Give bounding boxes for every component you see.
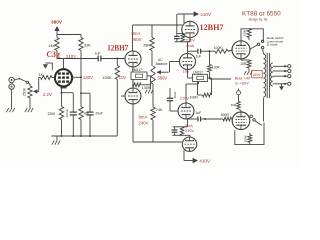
node 410V top <box>178 11 212 17</box>
wire CF1 anode <box>183 14 185 23</box>
capacitor 20uF screen bypass <box>86 93 103 136</box>
potentiometer AC balance <box>151 58 169 84</box>
switch mode b <box>250 115 262 125</box>
svg-text:140V: 140V <box>83 75 93 80</box>
tube V2b 12BH7 lower <box>125 88 141 104</box>
svg-text:C3g: C3g <box>46 50 60 59</box>
wire V3b grid <box>170 62 180 73</box>
wire V4a anode <box>185 118 187 121</box>
cathode network V3a <box>174 34 195 48</box>
ground input jack <box>6 108 14 112</box>
node KT88a grid feed <box>209 50 211 52</box>
resistor 100R set 1 <box>133 76 151 90</box>
label bias <box>235 76 251 86</box>
label 8mA 240V lower <box>139 115 149 126</box>
svg-text:210V: 210V <box>180 96 189 101</box>
tube V3b 12BH7 driver <box>180 54 196 70</box>
rail anode top <box>133 24 183 26</box>
svg-text:42K: 42K <box>84 43 91 47</box>
wire anode line <box>57 58 98 60</box>
svg-text:410V: 410V <box>199 159 211 164</box>
ground LM317 1 <box>145 90 153 94</box>
node grid V2a <box>116 58 118 60</box>
svg-text:30uF: 30uF <box>173 91 177 98</box>
svg-text:1uF: 1uF <box>196 54 202 58</box>
svg-text:100K: 100K <box>102 75 112 80</box>
wire KT88b grid <box>231 119 232 121</box>
wire SRPP junction <box>187 42 189 54</box>
wire screen feed <box>80 51 82 94</box>
svg-text:410V: 410V <box>253 73 262 77</box>
svg-text:KT88 or 6550: KT88 or 6550 <box>242 11 281 18</box>
svg-text:1uF: 1uF <box>195 111 201 115</box>
switch mode <box>250 40 264 54</box>
svg-text:380V: 380V <box>51 20 63 25</box>
regulator LM317 CCS 2 <box>183 69 208 81</box>
jack input upper <box>9 77 14 82</box>
svg-text:10V: 10V <box>119 75 127 80</box>
tube V4a 12BH7 driver lower <box>178 103 194 119</box>
jack input lower <box>9 84 14 89</box>
labels V4a grid <box>180 96 189 101</box>
svg-text:10V: 10V <box>183 70 190 74</box>
wire primary bottom <box>263 98 265 121</box>
resistor 220K cathode <box>48 93 64 136</box>
resistor 10R cathode a <box>240 59 251 71</box>
resistor 14K <box>48 35 59 59</box>
svg-text:380V: 380V <box>157 76 167 81</box>
ground KT88a cathode <box>244 71 252 75</box>
svg-text:240V: 240V <box>139 120 149 125</box>
ground KT88b cathode <box>237 89 241 95</box>
svg-text:LM317: LM317 <box>193 71 203 75</box>
resistor 100R set 2 <box>190 78 212 100</box>
svg-text:210V: 210V <box>185 128 194 133</box>
node 410V bottom <box>193 158 211 164</box>
wire KT88a grid <box>228 50 233 51</box>
transformer primary <box>264 54 266 97</box>
label C3g <box>46 50 60 59</box>
wire V2a anode to rail <box>132 25 134 52</box>
cathode tag C3g <box>60 88 66 93</box>
svg-text:24K: 24K <box>156 108 163 112</box>
capacitor 1uF coupling bottom <box>186 111 205 122</box>
svg-text:1uF: 1uF <box>95 52 101 56</box>
svg-text:120R: 120R <box>212 66 221 70</box>
svg-text:12BH7: 12BH7 <box>200 23 224 32</box>
svg-text:250K: 250K <box>23 87 27 96</box>
tube V2a 12BH7 upper <box>125 51 141 67</box>
wire V2b cathode <box>132 80 134 89</box>
wire jack to ground <box>11 89 13 108</box>
ground potentiometer <box>25 108 33 112</box>
svg-text:8mA: 8mA <box>139 115 148 120</box>
label 140V screen <box>72 75 93 80</box>
capacitor 1uF coupling top <box>188 49 212 59</box>
svg-text:12BH7: 12BH7 <box>107 43 128 52</box>
capacitor 30uF grid bypass <box>167 88 178 111</box>
svg-text:2) triode: 2) triode <box>267 43 278 47</box>
svg-text:to +60V: to +60V <box>235 81 249 86</box>
wire V4b cathode lead <box>189 135 191 137</box>
svg-text:14K: 14K <box>48 44 55 48</box>
label 410V box <box>252 71 263 78</box>
svg-text:28K: 28K <box>143 44 150 48</box>
resistor 24K load lower <box>151 84 163 142</box>
svg-text:20uF: 20uF <box>95 112 103 116</box>
wire V2b grid stub <box>121 95 125 97</box>
svg-text:260V: 260V <box>132 37 142 42</box>
wire V4b anode <box>184 150 193 161</box>
svg-text:500R: 500R <box>221 113 230 117</box>
label mode switch <box>267 36 285 47</box>
node KT88b grid feed <box>204 118 206 120</box>
svg-text:LM317: LM317 <box>132 68 142 72</box>
label 210V <box>66 54 76 59</box>
resistor 10K screen <box>79 93 90 136</box>
svg-text:220K: 220K <box>48 112 57 116</box>
svg-text:100K: 100K <box>244 135 248 142</box>
resistor 100K anode-screen loop <box>241 29 263 42</box>
svg-text:100K: 100K <box>214 46 223 50</box>
resistor 100K grid KT88a <box>211 46 232 53</box>
transformer secondary <box>271 63 273 86</box>
svg-text:design by: flp: design by: flp <box>249 18 268 22</box>
capacitor 100uF cathode bypass <box>65 109 77 136</box>
rail anode bottom <box>133 141 182 143</box>
resistor 500R grid KT88b <box>205 113 232 121</box>
svg-text:8mA: 8mA <box>132 31 141 36</box>
wire C3g anode lead <box>63 59 65 70</box>
resistor 100K loop b <box>235 123 264 145</box>
tube KT88b <box>232 112 250 130</box>
svg-text:10R: 10R <box>240 62 247 66</box>
svg-text:100K: 100K <box>243 30 247 37</box>
speaker terminals <box>273 65 291 86</box>
svg-text:100R: 100R <box>190 96 199 100</box>
resistor 42K <box>79 35 92 51</box>
svg-text:10R: 10R <box>231 103 237 107</box>
label KT88 or 6550 <box>242 11 281 18</box>
svg-text:100uF: 100uF <box>65 109 69 118</box>
svg-text:410V: 410V <box>200 12 212 17</box>
wire B+ drop <box>176 14 178 34</box>
ground shield arrow <box>43 63 53 70</box>
ground symbol rail <box>52 136 60 145</box>
wire V2b anode down <box>132 104 134 142</box>
wire B+ split <box>57 34 81 36</box>
resistor 10R cathode b <box>231 95 241 112</box>
ground rail left <box>52 135 118 137</box>
resistor 28K load upper <box>143 25 154 66</box>
transformer core <box>267 53 269 98</box>
label 8mA 260V <box>132 31 142 42</box>
regulator LM317 CCS 1 <box>131 67 147 80</box>
svg-text:1K: 1K <box>39 73 44 77</box>
tube KT88a <box>232 41 250 59</box>
label 12BH7 right <box>200 23 224 32</box>
node 380V supply (left B+) <box>51 20 63 35</box>
svg-text:100R: 100R <box>142 86 151 90</box>
cathode network V4b <box>172 119 195 135</box>
tube C3g V1 <box>55 69 72 86</box>
label 12BH7 left <box>107 43 128 52</box>
ground secondary <box>279 84 284 91</box>
resistor 120R bias feed <box>208 51 232 79</box>
tube V3a 12BH7 follower <box>182 21 198 37</box>
potentiometer 250K volume <box>23 78 39 109</box>
capacitor 1uF coupling (stage 1) <box>95 52 126 62</box>
node screen junction <box>80 92 90 94</box>
label design by <box>249 18 268 22</box>
resistor 100K grid leak <box>102 59 126 137</box>
tube V4b 12BH7 follower lower <box>182 137 196 151</box>
wire V4a cathode <box>186 82 199 104</box>
svg-text:2.2V: 2.2V <box>43 92 52 97</box>
resistor 1K grid stopper <box>39 73 56 79</box>
node C3g cathode <box>43 92 63 97</box>
wire cathode RC <box>62 93 74 111</box>
svg-text:Balance: Balance <box>156 62 168 66</box>
switch input <box>14 78 30 86</box>
